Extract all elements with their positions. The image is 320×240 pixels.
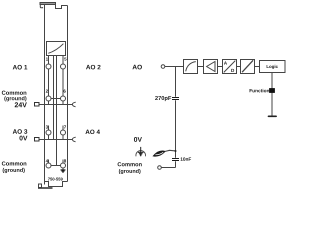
earth stub under contact 8 [62,168,64,170]
capacitor 270pF plates [172,98,179,100]
right fork row3 [68,137,76,142]
suppressor lens symbol [153,151,165,156]
module top-left hook [40,5,42,8]
module top rail bar [40,3,56,5]
contact number 4 [46,159,48,162]
module left wall [44,5,46,185]
label D in DA box [231,69,234,72]
wire logic down to bus bar [271,73,273,116]
noiseless earth bars [138,152,144,155]
module top-right step profile [56,5,68,9]
contact 8 circle [61,163,66,168]
bus T-bar [269,115,277,117]
AO node terminal circle [161,65,165,69]
row3 wire through module [39,139,68,141]
contact number 5 [64,57,66,60]
internal middle wire A [53,56,55,140]
label ground row2 [4,96,26,101]
row2 common wire through module [39,104,68,106]
contact number 2 [46,90,48,93]
contact 4 stub [48,160,50,166]
label 24V [15,102,27,107]
label 10nF [181,157,192,160]
label 0V row3 [19,136,27,141]
internal middle stub to row4 link [56,140,58,166]
ramp curve inside DAC box [48,44,63,54]
label AO 2 [86,65,101,70]
capacitor 10nF plates [172,159,179,161]
contact 5 circle [61,64,66,69]
label AO 1 [13,65,28,70]
label Logic [267,65,278,69]
contact 7 stub [62,126,64,140]
label 750-559 [48,178,63,181]
wire box2-box3 [218,66,223,68]
0V terminal circle [158,166,162,170]
noiseless earth arc [136,151,146,157]
contact number 1 [46,57,48,60]
signal box 1 output characteristic [184,60,198,74]
contact 2 circle [46,96,51,101]
label Common bottom-left [2,161,27,165]
row2 link wire [51,98,61,100]
DIN rail line [38,187,53,189]
contact number 8 [64,159,66,162]
suppressor junction dot [175,150,177,152]
row4 link wire [51,165,61,167]
module right wall [67,6,69,182]
signal box 4 galvanic isolation [241,60,255,74]
wire 0V terminal to main wire [161,167,175,169]
suppressor connector line [165,150,175,151]
signal box 3 DA converter [223,60,237,74]
function LED square [270,89,275,93]
earth bars under contact 8 [61,170,66,172]
module bottom edge with foot tongue [45,182,68,187]
label AO 3 [13,129,28,134]
contact 4 circle [46,163,51,168]
wire box4-logic [255,66,260,68]
contact number 3 [46,125,48,128]
contact 1 circle [46,64,51,69]
DIN rail nub bottom-left [39,184,42,188]
label ground bottom-left [3,168,25,173]
label Function [250,89,270,93]
contact 3 circle [46,130,51,135]
contact 6 circle [61,96,66,101]
left terminal tag row3 [35,138,40,142]
label AO node [132,65,141,70]
label Common middle [118,162,142,166]
label 0V middle [134,137,142,142]
contact number 6 [64,90,66,93]
contact 3 stub [48,126,50,140]
label AO 4 [85,130,100,134]
internal column wire left contacts 1-2 [48,56,50,105]
noiseless earth line [140,147,142,156]
vertical wire from junction down [175,67,177,168]
wire box3-box4 [237,66,241,68]
label Common row2 [2,91,27,95]
contact 8 stub [62,160,64,166]
label ground middle [119,169,141,174]
label A in DA box [224,61,227,64]
contact 7 circle [61,130,66,135]
internal middle wire B [56,56,58,140]
DAC box [47,42,66,56]
label 270pF [155,96,171,101]
left terminal tag row2 [35,103,40,107]
internal column wire right contacts 5-6 [62,56,64,105]
wire box1-box2 [198,66,204,68]
signal box 2 amplifier triangle [204,60,218,74]
contact number 7 [64,125,66,128]
wire node to box1 [165,66,184,68]
right fork row2 [68,102,76,107]
logic box [260,61,286,73]
suppressor lens white slash [155,152,163,154]
